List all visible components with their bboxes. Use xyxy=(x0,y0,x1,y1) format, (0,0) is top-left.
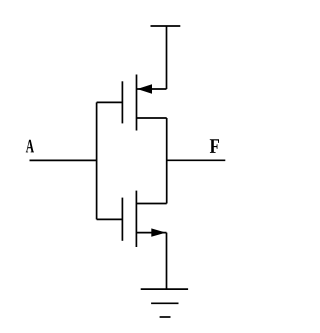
wire VDD stem xyxy=(166,26,168,89)
wire PMOS source lead xyxy=(137,88,167,90)
ground bar 1 xyxy=(141,288,188,290)
transistor Q1 PMOS gate plate xyxy=(121,81,123,123)
wire output F xyxy=(167,159,226,161)
label A (input net name) xyxy=(26,140,34,153)
transistor Q2 NMOS channel xyxy=(135,191,137,247)
wire NMOS drain lead xyxy=(136,203,166,205)
transistor Q1 PMOS channel xyxy=(136,75,138,131)
ground bar 3 xyxy=(160,316,171,318)
wire drain bus xyxy=(166,118,168,204)
transistor Q2 NMOS gate lead xyxy=(97,218,123,220)
wire input A xyxy=(30,159,97,161)
power supply VDD bar xyxy=(151,25,181,27)
wire gate bus xyxy=(96,102,98,219)
wire source to ground xyxy=(166,233,168,289)
transistor Q2 NMOS gate plate xyxy=(121,198,123,241)
wire NMOS source lead xyxy=(136,232,166,234)
arrow PMOS source (points left into channel) xyxy=(137,84,152,94)
label F (output net name) xyxy=(210,139,219,153)
wire PMOS drain lead xyxy=(137,117,167,119)
transistor Q1 PMOS gate lead xyxy=(97,101,123,103)
arrow NMOS source (points right away from channel) xyxy=(151,228,166,236)
ground bar 2 xyxy=(151,302,178,304)
